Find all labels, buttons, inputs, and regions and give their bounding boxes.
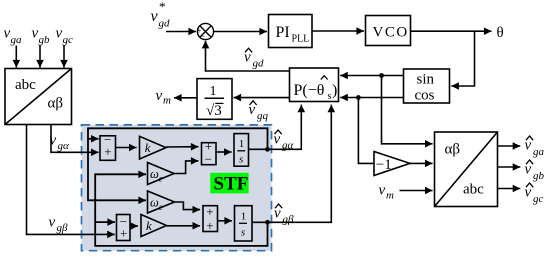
svg-text:gβ: gβ (57, 222, 69, 234)
svg-text:−1: −1 (376, 157, 392, 173)
node vga label (4, 26, 23, 47)
svg-text:v: v (525, 185, 532, 201)
node vg-alpha-hat label (274, 130, 294, 152)
svg-text:v: v (49, 215, 56, 231)
wire vgd-hat from P to phase detector (206, 41, 290, 71)
svg-text:cos: cos (415, 88, 435, 104)
svg-text:1: 1 (239, 138, 245, 150)
svg-text:v: v (4, 26, 11, 42)
wire vgb-hat output (498, 166, 521, 168)
wire VCO to theta (411, 30, 492, 32)
integrator 1/s top (234, 134, 249, 167)
svg-text:gb: gb (533, 170, 545, 182)
svg-text:k: k (146, 218, 152, 233)
svg-text:gc: gc (63, 34, 74, 46)
svg-text:v: v (525, 138, 532, 154)
gain minus-one (374, 152, 410, 176)
wire theta feedback to sin-cos (451, 31, 474, 86)
svg-text:gb: gb (39, 34, 51, 46)
wire vg-beta-hat output to P block (252, 105, 331, 223)
alpha-beta to abc block (435, 132, 498, 207)
wire vga input arrow (15, 46, 17, 68)
node vgc label (56, 26, 74, 47)
wire vgb input arrow (39, 46, 41, 68)
wire vgc input arrow (63, 46, 65, 68)
svg-text:v: v (249, 102, 256, 118)
summer sum1 (100, 132, 116, 160)
svg-text:αβ: αβ (445, 142, 461, 158)
wire vg-alpha-hat output to P block (249, 105, 302, 150)
node vgd-hat label (244, 48, 264, 69)
svg-text:PI: PI (276, 24, 290, 41)
wire omega-e to sum3 plus top (175, 202, 201, 210)
svg-text:gα: gα (282, 140, 294, 152)
svg-text:m: m (386, 190, 394, 202)
wire vga-hat output (498, 145, 521, 147)
integrator 1/s bottom (235, 206, 253, 241)
wire sin branch down to ab-abc block (382, 76, 433, 144)
wire feedback path A (vg-alpha-hat to sum1 minus and omega-e) (88, 128, 268, 200)
summer sum4 (117, 214, 131, 240)
wire vgd-ref to phase detector (166, 31, 196, 33)
svg-text:abc: abc (463, 182, 484, 198)
gain omega-c (148, 163, 175, 185)
svg-text:gd: gd (159, 18, 171, 30)
wire k1 to sum2 (166, 146, 199, 148)
svg-text:v: v (151, 8, 159, 25)
gain k1 (140, 136, 167, 159)
wire sum4 to k2 (130, 225, 138, 227)
wire k2 to sum3 (167, 225, 201, 227)
wire cos branch down to -1 gain (358, 98, 373, 164)
node vm label bottom (379, 183, 395, 202)
svg-text:gd: gd (253, 58, 265, 70)
wire PI to VCO (312, 30, 364, 32)
svg-text:θ: θ (497, 25, 504, 41)
node vgb label (32, 26, 51, 47)
node vgd-ref label (151, 0, 171, 30)
svg-text:*: * (159, 0, 166, 14)
svg-text:): ) (332, 82, 337, 99)
wire sum1 to k1 (116, 147, 137, 149)
wire branch B into sum4 minus (95, 221, 115, 223)
wire omega-c to sum2 minus (174, 161, 199, 174)
svg-text:ω: ω (150, 196, 159, 210)
node vgc-hat label (525, 183, 544, 205)
svg-text:ga: ga (533, 146, 545, 158)
wire vm to ab-abc block (400, 190, 433, 192)
svg-text:sin: sin (417, 72, 435, 88)
node vgb-hat label (525, 160, 545, 182)
oscillator VCO (366, 16, 411, 46)
svg-text:+: + (206, 204, 213, 219)
gain omega-e (148, 191, 175, 213)
block P(-theta-hat) (290, 68, 339, 102)
svg-text:v: v (32, 26, 39, 42)
node vg-beta label (49, 215, 69, 235)
svg-text:1: 1 (241, 211, 247, 223)
STF dashed region box (82, 125, 272, 251)
controller PI_PLL (269, 15, 313, 48)
svg-text:v: v (244, 50, 251, 66)
gain k2 (141, 215, 167, 237)
wire vgc-hat output (498, 188, 521, 190)
svg-text:c: c (159, 174, 163, 184)
svg-text:+: + (206, 218, 213, 233)
wire vgq-hat from P to one-over-sqrt3 (234, 97, 290, 99)
node vg-alpha label (50, 132, 70, 152)
wire branch A into sum1 minus (88, 138, 99, 140)
svg-text:STF: STF (214, 174, 249, 195)
svg-text:v: v (56, 26, 63, 42)
svg-text:ω: ω (150, 167, 159, 181)
node vgq-hat label (249, 101, 269, 122)
node junction dot B (265, 220, 270, 225)
abc to alpha-beta block (5, 69, 72, 125)
phase detector circle (197, 23, 214, 40)
summer sum3 (203, 204, 218, 233)
svg-text:s: s (239, 154, 243, 166)
svg-text:−: − (200, 31, 205, 41)
svg-text:v: v (156, 88, 163, 104)
svg-text:k: k (145, 140, 151, 155)
svg-text:+: + (120, 226, 127, 241)
svg-text:gα: gα (58, 140, 70, 152)
wire sum2 to integrator1 (216, 151, 232, 153)
svg-text:s: s (241, 227, 245, 239)
svg-text:v: v (525, 162, 532, 178)
block one-over-sqrt3 (197, 79, 232, 120)
node junction dot cos (356, 95, 361, 100)
svg-text:αβ: αβ (48, 96, 64, 112)
wire feedback path B (vg-beta-hat to sum4 minus and omega-c) (95, 174, 267, 246)
STF green label (210, 173, 248, 195)
block sin cos (404, 69, 450, 104)
svg-text:s: s (328, 91, 332, 102)
wire sin to P block (340, 75, 403, 77)
node vg-beta-hat label (274, 204, 294, 226)
svg-text:e: e (159, 202, 163, 212)
wire minus-one to ab-abc block (410, 162, 433, 164)
svg-text:gc: gc (533, 193, 544, 205)
svg-text:v: v (50, 132, 57, 148)
svg-text:abc: abc (15, 77, 36, 93)
node junction dot A (265, 147, 270, 152)
svg-text:VCO: VCO (373, 25, 409, 41)
summer sum2 (202, 138, 217, 166)
node vm label left (156, 88, 172, 107)
wire phase detector to PI (214, 31, 267, 33)
svg-text:v: v (274, 206, 281, 222)
wire cos to P block (340, 97, 403, 99)
svg-text:P(−θ: P(−θ (294, 82, 325, 99)
svg-text:√3: √3 (206, 103, 222, 119)
svg-text:−: − (205, 152, 212, 167)
svg-text:1: 1 (210, 84, 217, 99)
wire vm output arrow (174, 97, 197, 99)
svg-text:m: m (163, 95, 171, 107)
svg-text:gq: gq (257, 110, 269, 122)
wire vg-alpha from abc block to sum1 (51, 125, 99, 153)
svg-text:v: v (274, 132, 281, 148)
svg-text:gβ: gβ (283, 214, 295, 226)
svg-text:+: + (104, 144, 111, 159)
svg-text:ga: ga (11, 34, 23, 46)
wire vg-beta from abc block to sum4 (27, 125, 115, 235)
wire sum3 to integrator2 (218, 220, 233, 222)
node junction dot sin (379, 73, 384, 78)
svg-text:PLL: PLL (292, 34, 310, 45)
svg-text:v: v (379, 183, 386, 199)
node vga-hat label (525, 136, 545, 158)
